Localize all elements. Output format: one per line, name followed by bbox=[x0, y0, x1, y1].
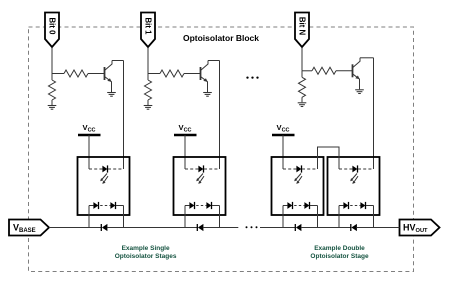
wire: U3 LED anode lead-in bbox=[282, 168, 284, 170]
ground (Bit 0 emitter) bbox=[107, 93, 116, 97]
diode D3 (bus, under U3) bbox=[295, 224, 301, 231]
diode D4 (bus, under U4) bbox=[351, 224, 357, 231]
svg-text:Example Double: Example Double bbox=[314, 245, 365, 252]
wire: Bit 1 collector to optocoupler bbox=[208, 60, 220, 62]
svg-text:Bit N: Bit N bbox=[298, 17, 307, 36]
optocoupler U1 body bbox=[78, 157, 130, 215]
ground (Bit N pulldown) bbox=[298, 103, 307, 107]
wire: bus break to D3 bbox=[260, 227, 295, 229]
optocoupler U2 body bbox=[174, 157, 226, 215]
ground (Bit 0 pulldown) bbox=[48, 106, 57, 110]
LED inside U2 bbox=[185, 165, 220, 172]
wire: bus VBASE to D1 bbox=[49, 227, 101, 229]
wire: Bit 0 collector to optocoupler bbox=[112, 60, 124, 62]
wire: U1 LED anode lead-in bbox=[88, 168, 90, 170]
wire: U4 output leads to bus bbox=[339, 206, 374, 228]
photodiode stack U1 bbox=[89, 202, 124, 209]
svg-text:Optoisolator Stage: Optoisolator Stage bbox=[310, 253, 369, 260]
transistor Q (Bit 0 NPN) bbox=[105, 61, 113, 93]
photodiode stack U4 bbox=[339, 202, 374, 209]
photodiode stack U3 bbox=[283, 202, 318, 209]
input flag Bit N bbox=[295, 13, 309, 48]
wire: bus D2 to break bbox=[203, 227, 238, 229]
power VCC (stage 2) bbox=[174, 123, 197, 135]
port flag HVOUT bbox=[400, 220, 440, 236]
wire: bus D4 to HVOUT bbox=[356, 227, 399, 229]
power VCC (stage 1) bbox=[78, 123, 101, 135]
wire: Bit N flag to base node bbox=[301, 47, 303, 71]
resistor R-base (Bit 0 series) bbox=[52, 70, 105, 77]
wire: Bit 0 flag to base node bbox=[51, 47, 53, 74]
optocoupler U4 body bbox=[328, 157, 380, 215]
light emission arrows U1 bbox=[100, 174, 108, 184]
wire: Bit N collector to optocoupler bbox=[360, 57, 374, 59]
wire: bus D1 to D2 bbox=[107, 227, 197, 229]
wire: stageN collector drop to U4 bbox=[373, 58, 375, 169]
resistor R-base (Bit N series) bbox=[302, 67, 353, 74]
LED inside U1 bbox=[89, 165, 124, 172]
light emission arrows U4 bbox=[350, 174, 358, 184]
wire: VCC1 to U1 anode bbox=[88, 135, 90, 169]
wire: U1 output leads to bus bbox=[89, 206, 124, 228]
ground (Bit N emitter) bbox=[355, 90, 364, 94]
input flag Bit 0 bbox=[45, 13, 59, 48]
resistor R-pulldown (Bit 0) bbox=[49, 74, 56, 106]
input flag Bit 1 bbox=[141, 13, 155, 48]
photodiode stack U2 bbox=[185, 202, 220, 209]
wire: stage2 collector drop to U2 bbox=[219, 61, 221, 170]
wire: U3 output leads to bus bbox=[283, 206, 318, 228]
wire: stage1 collector drop to U1 bbox=[123, 61, 125, 170]
LED inside U4 bbox=[339, 165, 374, 172]
svg-text:Bit 1: Bit 1 bbox=[144, 18, 153, 36]
optocoupler U3 body bbox=[272, 157, 324, 215]
resistor R-pulldown (Bit 1) bbox=[145, 74, 152, 106]
transistor Q (Bit 1 NPN) bbox=[201, 61, 209, 93]
ellipsis dots (repeated stages) bbox=[246, 76, 258, 78]
svg-text:Optoisolator Stages: Optoisolator Stages bbox=[115, 253, 177, 260]
transistor Q (Bit N NPN) bbox=[353, 58, 361, 90]
port flag VBASE bbox=[9, 220, 49, 236]
ellipsis dots (bus continuation) bbox=[246, 226, 258, 228]
svg-text:Optoisolator Block: Optoisolator Block bbox=[183, 33, 259, 43]
light emission arrows U2 bbox=[196, 174, 204, 184]
dashed block boundary bbox=[29, 27, 414, 272]
ground (Bit 1 pulldown) bbox=[144, 106, 153, 110]
diode D2 (bus, under U2) bbox=[197, 224, 203, 231]
resistor R-pulldown (Bit N) bbox=[299, 71, 306, 103]
LED inside U3 bbox=[283, 165, 318, 172]
resistor R-base (Bit 1 series) bbox=[148, 70, 201, 77]
diode D1 (bus, under U1) bbox=[101, 224, 107, 231]
wire: VCC2 to U2 anode bbox=[184, 135, 186, 169]
wire: bus D3 to D4 bbox=[301, 227, 351, 229]
wire: U4 LED anode lead-in bbox=[338, 168, 340, 170]
wire: U3 cathode to U4 anode bridge bbox=[318, 147, 340, 169]
light emission arrows U3 bbox=[294, 174, 302, 184]
wire: U2 LED anode lead-in bbox=[184, 168, 186, 170]
wire: Bit 1 flag to base node bbox=[147, 47, 149, 74]
svg-text:Bit 0: Bit 0 bbox=[48, 18, 57, 36]
wire: VCC3 to U3 anode bbox=[282, 135, 284, 169]
svg-text:Example Single: Example Single bbox=[122, 245, 170, 252]
ground (Bit 1 emitter) bbox=[203, 93, 212, 97]
wire: U2 output leads to bus bbox=[185, 206, 220, 228]
power VCC (double stage) bbox=[272, 123, 295, 135]
